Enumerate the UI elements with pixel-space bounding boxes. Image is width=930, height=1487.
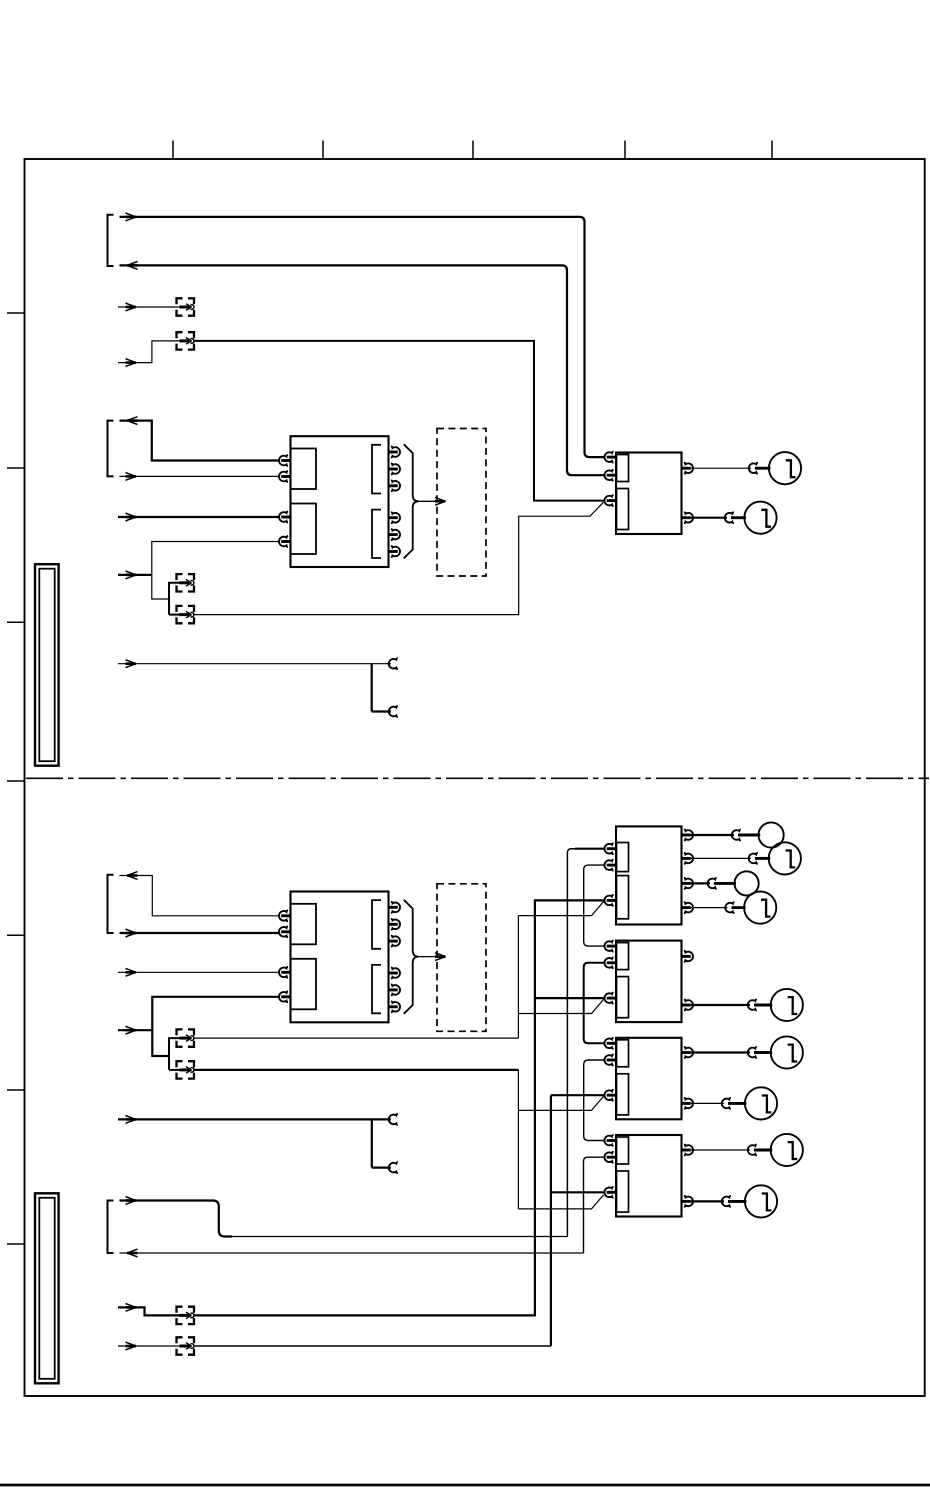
wire net B12 (M4 pin2 to M5 pin1): [584, 865, 604, 946]
wire net B14 (M6 pin2 to M7 pin1): [584, 1060, 604, 1141]
arrow on wire T1: [126, 213, 137, 221]
wire M4 to lamp E3: [691, 830, 760, 841]
wire net B7 (to M7 pin2): [120, 1157, 605, 1253]
arrow on B6 wire: [126, 1197, 137, 1205]
wire to M3 pin1: [120, 876, 280, 916]
lamp E6: [744, 892, 776, 924]
wire M4 to lamp E5: [691, 878, 736, 889]
wire M6 to lamp E9: [691, 1098, 747, 1109]
connector J3: [177, 574, 195, 591]
wire to M3 pin3: [118, 971, 279, 973]
wire M5 to lamp E7: [691, 1000, 772, 1011]
lamp E10: [771, 1134, 803, 1166]
arrow from M1 brace: [419, 497, 446, 505]
right block M5: [604, 941, 693, 1023]
wire net T1 (to M2 pin1): [120, 217, 605, 457]
wire net B11 (J6 chain to M6/M7 pin3 jogs): [194, 1070, 604, 1209]
brace for M1 outputs: [404, 444, 419, 558]
wire M6 to lamp E8: [691, 1047, 772, 1058]
input wire to connector J8: [118, 1345, 181, 1347]
input wire to junction: [118, 574, 152, 576]
wire to M1 pin2: [120, 475, 280, 477]
wire to M3 pin4 / junction: [152, 997, 279, 1056]
arrow from M3 brace: [419, 953, 446, 961]
dashed box H2: [437, 884, 486, 1032]
bracket BKT1: [108, 215, 114, 266]
right block M4: [604, 826, 693, 924]
arrow on lower junction wire: [126, 1026, 137, 1034]
lamp E9: [745, 1087, 777, 1119]
arrow on B7 wire: [127, 1249, 138, 1257]
wire net B10 (J5 chain to M4/M5 pin3 jogs): [194, 902, 604, 1039]
wire M7 to lamp E10: [691, 1145, 772, 1156]
wire into connector J2: [118, 341, 181, 363]
arrow on S2 wire: [126, 1116, 137, 1124]
wire net B9 (J8 feed to M6/M7 pin3): [194, 1095, 604, 1346]
left edge tick marks: [7, 313, 25, 1244]
wire net T3 (J2 to M2 pin3): [194, 341, 604, 501]
arrow on S1 wire: [126, 660, 137, 668]
arrow on J8 wire: [126, 1342, 137, 1350]
lamp E5 (no glyph): [735, 871, 759, 895]
connector J6: [177, 1061, 195, 1078]
wire net T4 (J4 to M2 pin3 jog): [194, 502, 604, 614]
wire M2 to lamp E2: [691, 512, 746, 523]
dashed box H1: [437, 429, 486, 577]
arrow on J7 wire: [126, 1304, 137, 1312]
arrow on J1 wire: [126, 303, 137, 311]
wire net T2 (to M2 pin2): [120, 265, 605, 475]
right block M2: [604, 452, 693, 534]
brace for M3 outputs: [404, 900, 419, 1014]
arrow on wire T2: [127, 262, 138, 270]
wire M7 to lamp E11: [691, 1196, 747, 1207]
wire M4 to lamp E4: [691, 853, 770, 864]
lamp E11: [745, 1185, 777, 1217]
lamp E8: [771, 1036, 803, 1068]
wire net B13 (M5 pin2 to M6 pin1): [584, 963, 604, 1044]
wire to M1 pin4 / junction: [152, 542, 279, 600]
lamp E1: [769, 452, 801, 484]
connector J7: [177, 1307, 195, 1324]
wire to M3 pin2: [120, 932, 280, 934]
left block M3: [279, 892, 400, 1023]
arrow on M1 pin3 wire: [126, 513, 137, 521]
right block M6: [604, 1038, 693, 1120]
bottom page rule: [0, 1484, 930, 1487]
lamp E7: [771, 989, 803, 1021]
lamp E3 (no glyph): [759, 822, 784, 847]
wire net B8 (J7 feed to M4/M5 pin3): [194, 900, 604, 1315]
harness bar W1 (top): [35, 564, 59, 766]
arrow on J2 wire: [126, 359, 137, 367]
lamp E4: [769, 842, 801, 874]
wire net B6 (to M4 pin1): [120, 849, 605, 1237]
arrow on M1 pin1 wire: [127, 417, 138, 425]
left block M1: [279, 436, 400, 567]
wire M2 to lamp E1: [691, 463, 771, 474]
connector J4: [177, 606, 195, 623]
lamp E2: [744, 502, 776, 534]
stub wire with sockets S2: [118, 1114, 398, 1173]
bracket BKT4: [108, 1201, 114, 1254]
wire M4 to lamp E6: [691, 902, 746, 913]
dash-dot section divider: [26, 777, 929, 779]
input wire to connector J7: [118, 1307, 181, 1315]
wire into connector J1: [118, 306, 181, 308]
wire to M1 pin3: [118, 516, 279, 518]
right block M7: [604, 1135, 693, 1217]
connector J1: [177, 298, 195, 315]
arrow on M1 pin2 wire: [126, 473, 137, 481]
bracket BKT3: [108, 875, 114, 933]
harness bar W2 (bottom): [35, 1193, 59, 1383]
arrow on M3 pin1 wire: [127, 872, 138, 880]
arrow on M3 pin2 wire: [126, 929, 137, 937]
bracket BKT2: [108, 421, 114, 477]
connector J2: [177, 332, 195, 349]
junction riser to J5/J6: [169, 1038, 181, 1070]
connector J5: [177, 1029, 195, 1046]
arrow on M3 pin3 wire: [126, 968, 137, 976]
junction riser to J3/J4: [169, 583, 181, 615]
connector J8: [177, 1337, 195, 1354]
stub wire with sockets S1: [118, 658, 398, 717]
wire to M1 pin1: [120, 421, 280, 461]
arrow on junction wire: [126, 571, 137, 579]
top edge tick marks: [173, 141, 772, 160]
input wire to lower junction: [118, 1029, 152, 1031]
